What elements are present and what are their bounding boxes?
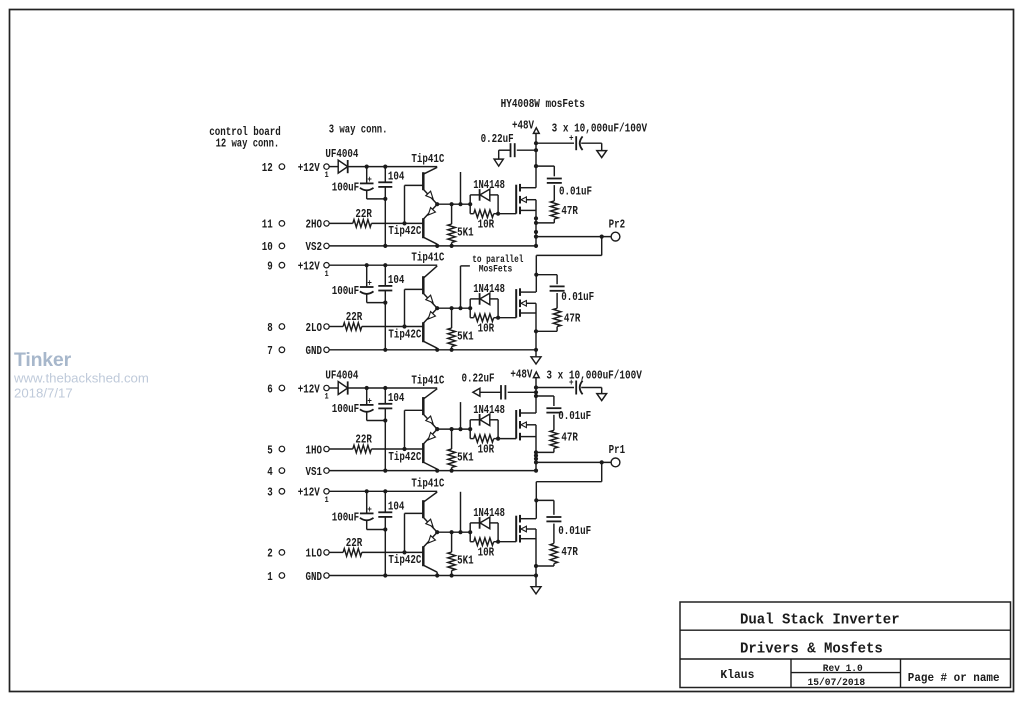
wire 47R return (stage 2) [536,327,557,332]
watermark Tinker [14,349,72,371]
resistor 5K1 (stage 2) [448,308,474,352]
wire source rail (stage 2) [534,303,538,352]
svg-text:100uF: 100uF [332,180,360,194]
wire snubber tap (stage 3) [536,396,554,406]
wire PNP collector to rail (stage 1) [435,244,439,248]
resistor 47R (stage 4) [550,543,578,563]
svg-text:+12V: +12V [298,161,321,175]
svg-text:7: 7 [267,344,273,358]
svg-text:47R: 47R [561,431,578,445]
svg-text:Tip41C: Tip41C [411,152,444,166]
wire +12V terminal to rail (stage 2) [329,264,367,266]
wire gate (stage 2) [498,317,516,319]
title: Dual Stack Inverter [740,612,900,629]
svg-text:+: + [367,175,372,185]
capacitor 0.01uF (stage 3) [546,408,591,423]
svg-text:5: 5 [267,443,273,457]
svg-text:10R: 10R [478,442,495,456]
svg-text:+12V: +12V [298,486,321,500]
wire VS2 rail (stage 1) [329,245,536,247]
connector pin 3 (+12V) [267,486,329,505]
svg-text:0.01uF: 0.01uF [558,524,591,538]
resistor 5K1 (stage 1) [448,204,474,248]
resistor 47R (stage 2) [553,308,581,326]
capacitor 3 x 10,000uF/100V (stage 3) [536,368,642,400]
capacitor 3 x 10,000uF/100V (stage 1) [536,122,648,158]
svg-text:5K1: 5K1 [457,330,474,344]
wire VS1 rail (stage 3) [329,470,536,472]
svg-text:2LO: 2LO [306,321,323,335]
mosfet HY4008W (stage 1) [516,184,536,214]
svg-text:3 way conn.: 3 way conn. [329,123,388,137]
capacitor 100uF (stage 4) [332,491,374,529]
label HY4008W mosFets [501,97,585,111]
svg-text:1N4148: 1N4148 [473,178,505,192]
transistor Q Tip42C (stage 4) [388,532,437,572]
wire snubber tap (stage 4) [534,498,554,515]
svg-text:0.01uF: 0.01uF [559,185,592,199]
svg-text:22R: 22R [355,207,372,221]
svg-text:3 x 10,000uF/100V: 3 x 10,000uF/100V [546,368,642,382]
capacitor 104 (stage 2) [378,265,404,302]
wire cap to 47R (stage 1) [553,185,555,201]
mosfet HY4008W (stage 3) [516,409,536,440]
resistor 10R (stage 2) [470,314,500,336]
wire cap ground join (stage 1) [367,197,388,201]
mosfet HY4008W (stage 4) [516,515,536,543]
label 3 way conn. [329,123,388,137]
svg-text:1LO: 1LO [306,547,323,561]
svg-text:Drivers & Mosfets: Drivers & Mosfets [740,640,883,657]
wire gate network bracket (stage 4) [469,523,471,542]
resistor 47R (stage 1) [551,201,579,219]
svg-text:Page # or name: Page # or name [908,672,1000,685]
title: Drivers & Mosfets [740,640,883,657]
resistor 22R (stage 4) [343,536,363,556]
svg-text:Tip42C: Tip42C [388,450,421,464]
wire diode to +12V rail (stage 3) [348,387,367,389]
svg-text:VS2: VS2 [306,240,323,254]
mosfet HY4008W (stage 2) [516,288,536,317]
svg-text:HY4008W mosFets: HY4008W mosFets [501,97,585,111]
svg-text:+48V: +48V [512,118,535,132]
svg-text:1HO: 1HO [306,443,323,457]
svg-text:Rev 1.0: Rev 1.0 [823,663,863,675]
wire 22R to transistor bases (stage 2) [362,324,424,328]
svg-text:5K1: 5K1 [457,554,474,568]
connector pin 2 (1LO) [267,547,329,561]
ground (stage 2) [531,350,541,364]
node driver output (stage 1) [435,202,472,206]
svg-text:Tip41C: Tip41C [411,373,444,387]
capacitor 0.22uF (stage 3) [462,372,537,400]
svg-text:Tip42C: Tip42C [388,327,421,341]
label to parallel MosFets [472,254,523,274]
connector pin 1 (GND) [267,570,329,584]
svg-text:www.thebackshed.com: www.thebackshed.com [13,371,149,386]
watermark url [13,371,149,386]
wire source rail (stage 1) [534,200,538,248]
wire diode to +12V rail (stage 1) [348,166,367,168]
wire snubber tap (stage 2) [534,273,557,285]
svg-text:4: 4 [267,465,273,479]
wire +12V terminal to diode (stage 3) [329,387,338,389]
wire cap to 47R (stage 4) [553,524,555,544]
resistor 5K1 (stage 3) [448,429,474,473]
wire 22R to transistor bases (stage 1) [371,221,423,225]
node driver output (stage 2) [435,306,472,310]
wire +12V rail (stage 4) [365,489,438,493]
transistor Q Tip42C (stage 2) [388,308,437,348]
resistor 10R (stage 1) [470,210,500,232]
svg-text:Pr2: Pr2 [609,217,626,231]
wire +12V rail (stage 1) [365,165,438,169]
capacitor 104 (stage 1) [378,167,404,199]
diode 1N4148 (stage 2) [470,282,505,318]
svg-text:100uF: 100uF [332,284,360,298]
svg-text:9: 9 [267,260,273,274]
wire 2LO terminal to 22R (stage 2) [329,326,343,328]
svg-text:+12V: +12V [298,382,321,396]
svg-text:Tip41C: Tip41C [411,477,444,491]
wire drain feed loop (stage 4) [536,463,601,519]
svg-text:3: 3 [267,486,273,500]
svg-text:2HO: 2HO [306,218,323,232]
svg-text:1: 1 [325,172,329,180]
svg-text:Tip42C: Tip42C [388,224,421,238]
svg-text:5K1: 5K1 [457,451,474,465]
wire base loop (stage 3) [405,410,424,449]
wire output Pr2 (stage 1) [536,235,611,239]
svg-text:47R: 47R [561,204,578,218]
svg-text:Tip42C: Tip42C [388,553,421,567]
connector pin 6 (+12V) [267,382,329,401]
wire gate (stage 1) [498,213,516,215]
wire 104 column to GND rail (stage 2) [383,303,387,352]
svg-text:Pr1: Pr1 [609,443,626,457]
wire snubber tap (stage 1) [536,166,554,176]
wire gate network bracket (stage 3) [469,420,471,439]
wire cap to 47R (stage 3) [553,415,555,431]
capacitor 0.22uF (stage 1) [481,132,536,166]
wire stub to parallel mosfets gate (stage 2) [461,266,470,308]
wire gate network bracket (stage 1) [469,195,471,214]
capacitor 0.01uF (stage 1) [547,179,592,199]
capacitor 100uF (stage 1) [332,167,374,199]
svg-text:1: 1 [325,394,329,402]
wire gate (stage 3) [498,438,516,440]
connector pin 11 (2HO) [262,218,329,232]
svg-text:UF4004: UF4004 [325,369,358,383]
connector pin 12 (+12V) [262,161,329,180]
capacitor 0.01uF (stage 2) [550,286,595,304]
wire +12V terminal to diode (stage 1) [329,166,338,168]
node driver output (stage 4) [435,530,472,534]
svg-text:Tip41C: Tip41C [411,251,444,265]
svg-text:22R: 22R [346,536,363,550]
svg-text:1: 1 [325,497,329,505]
transistor Q Tip41C (stage 2) [411,251,444,309]
svg-text:10R: 10R [478,321,495,335]
title: Rev 1.0 [823,663,863,675]
wire 1HO terminal to 22R (stage 3) [329,448,353,450]
svg-text:10: 10 [262,240,273,254]
svg-text:1: 1 [325,271,329,279]
wire cap ground join (stage 3) [367,418,388,422]
resistor 47R (stage 3) [550,430,578,448]
wire base loop (stage 2) [405,289,424,326]
title: Page # or name [908,672,1000,685]
svg-text:104: 104 [388,391,405,405]
transistor Q Tip41C (stage 3) [411,373,444,429]
svg-text:100uF: 100uF [332,510,360,524]
svg-text:104: 104 [388,273,405,287]
svg-text:1N4148: 1N4148 [473,282,505,296]
title: 15/07/2018 [808,677,866,689]
svg-text:+: + [367,505,372,515]
svg-text:2018/7/17: 2018/7/17 [14,386,73,401]
wire gate network bracket (stage 2) [469,299,471,318]
wire 22R to transistor bases (stage 3) [371,447,423,451]
svg-text:10R: 10R [478,545,495,559]
svg-text:1N4148: 1N4148 [473,506,505,520]
svg-text:0.22uF: 0.22uF [462,372,495,386]
capacitor 104 (stage 4) [378,491,404,529]
wire 2HO terminal to 22R (stage 1) [329,222,353,224]
svg-text:12: 12 [262,161,273,175]
label 12 way conn. [216,136,280,150]
svg-text:+12V: +12V [298,260,321,274]
capacitor 100uF (stage 3) [332,388,374,421]
resistor 22R (stage 2) [343,310,363,330]
svg-text:Dual Stack Inverter: Dual Stack Inverter [740,612,900,629]
wire 1LO terminal to 22R (stage 4) [329,551,343,553]
svg-text:+: + [367,396,372,406]
svg-text:22R: 22R [355,433,372,447]
wire +12V terminal to rail (stage 4) [329,490,367,492]
svg-text:VS1: VS1 [306,465,323,479]
connector pin 5 (1HO) [267,443,329,457]
capacitor 100uF (stage 2) [332,265,374,302]
svg-text:+48V: +48V [510,367,533,381]
node Pr2 [609,217,626,241]
diode 1N4148 (stage 4) [470,506,505,542]
wire cap to 47R (stage 2) [556,293,558,308]
wire 47R return (stage 3) [536,448,554,452]
svg-text:5K1: 5K1 [457,226,474,240]
connector pin 9 (+12V) [267,260,329,279]
ground (stage 4) [531,576,541,594]
svg-text:12 way conn.: 12 way conn. [216,136,280,150]
svg-text:GND: GND [306,570,323,584]
connector pin 10 (VS2) [262,240,329,254]
wire base loop (stage 4) [405,513,424,552]
svg-text:2: 2 [267,547,273,561]
title block frame [680,602,1011,688]
svg-text:MosFets: MosFets [479,264,513,275]
resistor 22R (stage 1) [353,207,373,227]
svg-text:6: 6 [267,382,273,396]
svg-text:104: 104 [388,499,405,513]
svg-text:Klaus: Klaus [720,668,754,682]
wire drain feed loop (stage 2) [536,237,601,293]
svg-text:15/07/2018: 15/07/2018 [808,677,866,689]
wire 47R return (stage 4) [536,564,554,566]
wire output Pr1 (stage 3) [536,460,611,464]
svg-text:47R: 47R [564,312,581,326]
wire stub (stage 3) [460,402,462,429]
svg-text:Tinker: Tinker [14,349,72,371]
capacitor 0.01uF (stage 4) [546,517,591,538]
wire GND rail (stage 2) [329,349,536,351]
svg-text:47R: 47R [561,545,578,559]
wire 47R return (stage 1) [536,219,554,223]
resistor 22R (stage 3) [353,433,373,453]
connector pin 8 (2LO) [267,321,329,335]
resistor 10R (stage 4) [470,538,500,560]
svg-text:UF4004: UF4004 [325,147,358,161]
title: Klaus [720,668,754,682]
diode UF4004 (stage 3) [325,369,358,395]
wire 104 column to VS2 rail (stage 1) [383,199,387,248]
svg-text:1N4148: 1N4148 [473,403,505,417]
transistor Q Tip41C (stage 4) [411,477,444,533]
capacitor 104 (stage 3) [378,388,404,421]
connector pin 4 (VS1) [267,465,329,479]
wire 22R to transistor bases (stage 4) [362,550,424,554]
transistor Q Tip41C (stage 1) [411,152,444,204]
node Pr1 [609,443,626,467]
wire +12V rail (stage 3) [365,386,438,390]
wire GND rail (stage 4) [329,575,536,577]
svg-text:0.01uF: 0.01uF [558,409,591,423]
wire 104 column to VS1 rail (stage 3) [383,421,387,473]
svg-text:1: 1 [267,570,273,584]
watermark date [14,386,73,401]
power +48V (stage 3) [510,367,539,413]
wire 104 column to GND rail (stage 4) [383,530,387,578]
svg-text:+: + [367,278,372,288]
wire source rail (stage 3) [534,425,538,473]
svg-text:11: 11 [262,218,273,232]
transistor Q Tip42C (stage 1) [388,204,437,244]
svg-text:10R: 10R [478,217,495,231]
svg-text:104: 104 [388,169,405,183]
node driver output (stage 3) [435,427,472,431]
wire cap ground join (stage 4) [367,527,388,531]
resistor 5K1 (stage 4) [448,532,474,577]
diode 1N4148 (stage 3) [470,403,505,439]
diode UF4004 (stage 1) [325,147,358,173]
wire gate (stage 4) [498,541,516,543]
wire stub (stage 1) [460,172,462,204]
wire base loop (stage 1) [405,185,424,223]
label control board [209,125,280,139]
svg-text:0.22uF: 0.22uF [481,132,514,146]
svg-text:0.01uF: 0.01uF [561,290,594,304]
wire PNP collector to rail (stage 3) [435,469,439,473]
svg-text:100uF: 100uF [332,402,360,416]
svg-text:8: 8 [267,321,273,335]
resistor 10R (stage 3) [470,435,500,457]
svg-text:3 x 10,000uF/100V: 3 x 10,000uF/100V [552,122,648,136]
svg-text:GND: GND [306,344,323,358]
diode 1N4148 (stage 1) [470,178,505,214]
wire source rail (stage 4) [534,529,538,578]
connector pin 7 (GND) [267,344,329,358]
power +48V (stage 1) [512,118,539,187]
wire PNP collector to rail (stage 4) [435,572,439,577]
wire stub (stage 4) [460,492,462,532]
wire cap ground join (stage 2) [367,301,388,305]
wire PNP collector to rail (stage 2) [435,348,439,352]
transistor Q Tip42C (stage 3) [388,429,437,469]
svg-text:22R: 22R [346,310,363,324]
wire +12V rail (stage 2) [365,263,438,267]
